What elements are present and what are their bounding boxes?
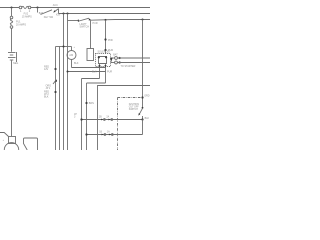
- wire: second bus y=13.5: [59, 13, 151, 15]
- node: junction at (63.5,46.5): [63, 46, 65, 48]
- wire: vertical x=67.5 down: [67, 14, 69, 151]
- svg-text:IGN: IGN: [56, 14, 61, 17]
- circuit schematic 150x150: [0, 0, 150, 150]
- svg-text:PUR: PUR: [107, 71, 112, 74]
- key switch S1 (BAT / ACC / IGN): [38, 4, 61, 19]
- wire: vertical x=58.5: [59, 47, 61, 151]
- node: splice at (54.5,69): [54, 68, 56, 70]
- wire: vertical x=54.5: [55, 47, 57, 151]
- fuse FU2 (on top bus): [19, 6, 32, 18]
- wire: top bus y=7.5 left of FU2: [0, 7, 19, 9]
- coil box: [99, 57, 107, 64]
- solenoid output terminals: [110, 53, 150, 67]
- solenoid plunger arrow: [110, 58, 113, 62]
- svg-text:BLK: BLK: [44, 96, 49, 99]
- wire: right vertical x=142.5: [142, 20, 144, 108]
- wire: drop x=90.5 to circuit breaker: [90, 20, 92, 48]
- node: splice at (105.5,50): [104, 49, 106, 51]
- svg-text:BLK: BLK: [145, 117, 150, 120]
- connector pair on y=119.5: [101, 119, 103, 121]
- node: junction at (142.5,97.5): [141, 96, 143, 98]
- node: junction at (67.5,71.5): [67, 71, 69, 73]
- wire: y=46.5 horizontal (ammeter feed): [56, 46, 72, 48]
- headlamp 1: [0, 133, 19, 158]
- wire: y=67.5 from ammeter to relay: [72, 67, 106, 69]
- engine block outline: [98, 86, 151, 151]
- wire: relay PUR wire down-left: [87, 82, 106, 84]
- node: splice at (86.5,103): [85, 102, 87, 104]
- svg-text:PNK: PNK: [108, 39, 113, 42]
- svg-text:BLK: BLK: [92, 71, 97, 74]
- wire: stub from x=67.5 to light switch: [68, 20, 79, 22]
- node: junction at (37.5,7.5): [37, 7, 39, 9]
- svg-text:1B: 1B: [99, 131, 102, 133]
- connector pair on y=134.5: [102, 134, 104, 136]
- node: junction at (86.5,134.5): [85, 133, 87, 135]
- node: splice at (105.5,39.5): [104, 38, 106, 40]
- wire: ground wire y=134.5: [87, 134, 143, 136]
- battery BT1: [8, 28, 18, 136]
- svg-text:NEG: NEG: [13, 62, 18, 65]
- svg-text:15 AMPS: 15 AMPS: [22, 15, 32, 18]
- node: junction at (11.5,7.5): [11, 7, 13, 9]
- svg-text:BAT: BAT: [113, 53, 118, 56]
- node: junction at (142.5,119.5): [141, 118, 143, 120]
- svg-text:1A: 1A: [107, 130, 110, 133]
- wire: top bus y=7.5 right of FU2 to right edge: [31, 7, 150, 9]
- svg-text:AM: AM: [69, 53, 73, 57]
- svg-text:BLK: BLK: [74, 62, 79, 65]
- headlamp 2: [24, 138, 38, 150]
- engine boundary dash-dot horizontal y=97.5: [118, 97, 143, 99]
- svg-text:ACC: ACC: [53, 4, 58, 7]
- svg-text:TO STARTER: TO STARTER: [121, 65, 136, 68]
- svg-text:2B: 2B: [99, 116, 102, 118]
- starter solenoid K1 (dashed outer box): [96, 51, 111, 67]
- svg-text:GRD: GRD: [144, 95, 150, 98]
- wire: long vertical x=63.5: [63, 14, 65, 151]
- wire: y=71.5 from x=67.5 to relay: [68, 71, 106, 73]
- ignition cut-off switch: [129, 104, 150, 120]
- connector arrow on x=54.5 at y=80: [54, 79, 57, 82]
- ammeter A1: [67, 46, 79, 67]
- svg-text:SOLENOID: SOLENOID: [98, 51, 111, 54]
- svg-text:12V: 12V: [44, 68, 49, 71]
- node: junction at (142.5,19.5): [142, 19, 144, 21]
- wire: relay BLK wire down-left: [82, 78, 100, 80]
- fuse FU1 (vertical, left): [10, 8, 26, 29]
- light switch: [78, 18, 91, 29]
- node: junction at (105.5,19.5): [105, 19, 107, 21]
- wire: third bus y=19.5 from light switch to right edge: [91, 19, 151, 22]
- svg-text:2A: 2A: [106, 115, 109, 118]
- engine boundary dash-dot vertical x=117.5: [117, 98, 119, 151]
- node: junction at (81.5,119.5): [80, 118, 82, 120]
- svg-text:SWITCH: SWITCH: [129, 109, 138, 111]
- svg-text:SWITCH: SWITCH: [80, 26, 90, 29]
- node: junction at (63.5,13.5): [63, 13, 65, 15]
- wire: magneto wire y=119.5: [82, 119, 143, 121]
- node: junction at (67.5,13.5): [67, 13, 69, 15]
- wire: solenoid feed vertical x=105.5: [105, 20, 107, 54]
- relay coil wires down with arrowheads: [99, 64, 101, 79]
- svg-text:20 AMPS: 20 AMPS: [16, 24, 26, 27]
- svg-text:PUR: PUR: [93, 22, 98, 25]
- circuit breaker box: [87, 49, 94, 61]
- node: splice at (54.5,92): [54, 91, 56, 93]
- svg-text:BRN: BRN: [89, 102, 94, 105]
- wire: right vertical of loop x=142.5: [142, 120, 144, 135]
- svg-text:KEY SW: KEY SW: [44, 16, 54, 19]
